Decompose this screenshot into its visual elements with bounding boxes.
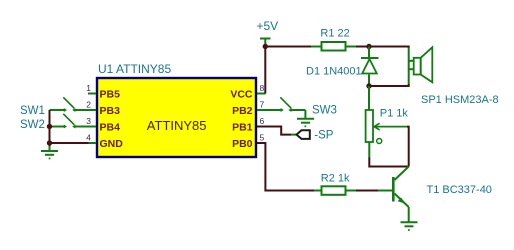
power +5V label [257, 19, 279, 33]
svg-text:D1 1N4001: D1 1N4001 [306, 65, 362, 77]
pin 4 GND stub [89, 142, 97, 144]
wire node B to P1 top [368, 86, 370, 110]
pin number 7 [260, 100, 265, 110]
svg-text:R2 1k: R2 1k [321, 172, 350, 184]
speaker SP1 [409, 47, 433, 82]
svg-text:5: 5 [260, 133, 265, 143]
wire R2 to T1 base [356, 190, 378, 192]
pin number 2 [86, 100, 91, 110]
pin 1 PB5 stub [88, 93, 96, 95]
potentiometer P1 [366, 110, 407, 158]
label SW2 [20, 119, 45, 131]
svg-text:1: 1 [86, 83, 91, 93]
pin name VCC [230, 89, 253, 101]
pin name PB1 [232, 122, 253, 134]
transistor T1 BC337-40 [393, 167, 408, 223]
svg-text:SW1: SW1 [20, 105, 45, 117]
IC U1 title label [98, 62, 171, 76]
pin name PB5 [100, 89, 121, 101]
svg-text:PB5: PB5 [100, 89, 121, 101]
svg-text:4: 4 [86, 133, 91, 143]
label P1 1k [380, 108, 409, 120]
svg-text:PB2: PB2 [232, 105, 253, 117]
pin name PB3 [100, 105, 121, 117]
svg-text:P1 1k: P1 1k [380, 108, 409, 120]
ground (left, under SW bus) [41, 146, 58, 159]
pin name PB4 [100, 122, 121, 134]
wire speaker bottom to node B [369, 84, 409, 86]
pin number 3 [86, 116, 91, 126]
connector -SP stub [291, 134, 297, 136]
power +5V symbol [260, 39, 271, 47]
label T1 BC337-40 [427, 184, 492, 196]
svg-text:VCC: VCC [230, 89, 253, 101]
wire SW bus vertical [49, 110, 51, 147]
svg-text:SP1 HSM23A-8: SP1 HSM23A-8 [421, 94, 499, 106]
junction node B (D1/SP1/P1) [366, 83, 371, 88]
IC U1 center value label [147, 118, 207, 133]
svg-text:-SP: -SP [314, 129, 334, 141]
pin number 5 [260, 133, 265, 143]
label SP1 HSM23A-8 [421, 94, 499, 106]
pin number 4 [86, 133, 91, 143]
ground (under T1 emitter) [401, 222, 418, 231]
diode D1 [361, 47, 379, 87]
svg-text:PB1: PB1 [232, 122, 253, 134]
pin name PB2 [232, 105, 253, 117]
label R2 1k [321, 172, 350, 184]
wire P1 wiper to collector node [407, 127, 409, 167]
svg-text:SW2: SW2 [20, 119, 45, 131]
switch SW1 [50, 97, 97, 112]
junction +5V node [263, 44, 268, 49]
svg-text:GND: GND [100, 138, 124, 150]
svg-text:T1 BC337-40: T1 BC337-40 [427, 184, 492, 196]
svg-text:U1 ATTINY85: U1 ATTINY85 [98, 62, 171, 76]
wire +5V to R1 [265, 46, 312, 48]
wire PB0 to R2 [257, 143, 314, 191]
pin number 8 [260, 83, 265, 93]
pin number 1 [86, 83, 91, 93]
junction GND node [47, 140, 52, 145]
svg-text:ATTINY85: ATTINY85 [147, 118, 207, 133]
svg-text:PB0: PB0 [232, 138, 253, 150]
IC U1 ATTINY85 body [97, 78, 256, 157]
wire P1 bottom to collector node [369, 158, 408, 167]
wire GND pin4 [50, 142, 89, 144]
connector -SP [297, 130, 310, 139]
label SW3 [312, 104, 337, 116]
wire node A to speaker top [369, 47, 409, 49]
T1 base stub [378, 190, 392, 192]
svg-text:3: 3 [86, 116, 91, 126]
svg-text:6: 6 [260, 116, 265, 126]
svg-text:PB3: PB3 [100, 105, 121, 117]
junction node A (R1/D1/SP1) [366, 44, 371, 49]
svg-text:8: 8 [260, 83, 265, 93]
label R1 22 [320, 28, 349, 40]
svg-text:+5V: +5V [257, 19, 279, 33]
wire +5V to VCC [264, 47, 266, 94]
label -SP [314, 129, 334, 141]
switch SW3 [257, 97, 305, 118]
wire R1 to node A [356, 46, 369, 48]
resistor R1 [311, 42, 356, 51]
pin 8 VCC stub [257, 93, 266, 95]
svg-text:7: 7 [260, 100, 265, 110]
svg-text:R1 22: R1 22 [320, 28, 349, 40]
wire PB1 to -SP connector [257, 127, 291, 135]
switch SW2 [50, 114, 97, 129]
svg-text:2: 2 [86, 100, 91, 110]
label D1 1N4001 [306, 65, 362, 77]
junction SW2 node [47, 124, 52, 129]
pin number 6 [260, 116, 265, 126]
pin name GND [100, 138, 124, 150]
ground (under SW3) [297, 119, 314, 128]
label SW1 [20, 105, 45, 117]
svg-text:PB4: PB4 [100, 122, 121, 134]
wire speaker vertical (green segment) [408, 48, 410, 85]
svg-text:SW3: SW3 [312, 104, 337, 116]
pin name PB0 [232, 138, 253, 150]
resistor R2 [314, 186, 356, 195]
